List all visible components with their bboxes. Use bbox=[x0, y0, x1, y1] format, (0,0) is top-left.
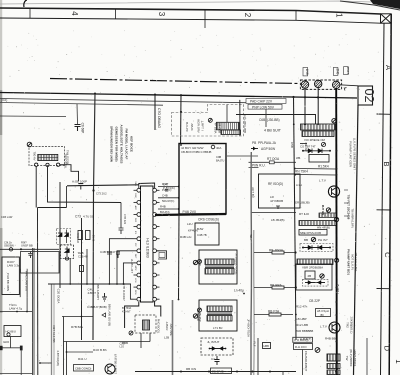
svg-text:1: 1 bbox=[394, 359, 400, 364]
U6 mark bbox=[320, 274, 324, 278]
svg-text:2N17: 2N17 bbox=[346, 67, 350, 75]
svg-text:LRFT I: LRFT I bbox=[201, 121, 205, 130]
svg-text:R1 5K4: R1 5K4 bbox=[318, 165, 329, 169]
wire y341 bbox=[64, 341, 151, 343]
svg-text:R-H JOO: R-H JOO bbox=[295, 345, 307, 349]
wire y316 bbox=[62, 316, 93, 318]
support vertical x87 bbox=[86, 249, 88, 284]
transformer T4 box bbox=[199, 250, 237, 284]
svg-text:BJU(N): BJU(N) bbox=[160, 210, 170, 214]
svg-text:47 HNT: 47 HNT bbox=[122, 311, 131, 314]
support vertical x70 bbox=[69, 259, 71, 285]
junction x296 rows bbox=[294, 168, 296, 170]
jack label 2N0 bbox=[333, 68, 338, 76]
dash-dot bus (off-page) bbox=[50, 79, 299, 84]
svg-text:L.T.V: L.T.V bbox=[320, 325, 327, 329]
svg-text:VOI 2PIECE OM: VOI 2PIECE OM bbox=[304, 138, 325, 142]
svg-text:KGR SRV: KGR SRV bbox=[197, 119, 201, 132]
svg-text:FM MODE; I.I AJC AF: FM MODE; I.I AJC AF bbox=[125, 129, 129, 160]
svg-text:TN4 OS?BL: TN4 OS?BL bbox=[64, 153, 68, 169]
vertical x258 bbox=[257, 338, 259, 375]
svg-text:C4B 7B: C4B 7B bbox=[197, 233, 207, 237]
svg-text:LN8: LN8 bbox=[305, 69, 309, 75]
U1 pin R3 bbox=[153, 213, 157, 217]
svg-text:ABJ4: ABJ4 bbox=[190, 123, 194, 131]
diode D4 dashed box bbox=[61, 245, 74, 259]
label PNP LOW 50V bbox=[248, 104, 282, 109]
border right inner line bbox=[381, 23, 385, 375]
svg-text:LJB: LJB bbox=[164, 336, 169, 340]
svg-text:(J30-BB): (J30-BB) bbox=[267, 118, 280, 122]
resistor R2C bbox=[80, 266, 84, 272]
vertical x21 bottom bbox=[20, 350, 22, 375]
mark near T1 bbox=[27, 142, 32, 147]
resistor RB JOOA body bbox=[272, 251, 284, 254]
svg-text:NBE 0PSS-0IOB: NBE 0PSS-0IOB bbox=[300, 231, 321, 235]
vertical from PNP box bbox=[265, 109, 267, 127]
svg-text:R4B L2x: R4B L2x bbox=[180, 235, 192, 239]
svg-text:C2B 4U: C2B 4U bbox=[78, 255, 88, 259]
wire from T1-2 bbox=[48, 167, 122, 203]
bus junction bbox=[154, 94, 156, 96]
U1 pin L8 bbox=[137, 273, 141, 277]
wire bbox=[296, 174, 336, 177]
T5 terminal mark bbox=[198, 308, 202, 312]
svg-text:HC-IB/U: HC-IB/U bbox=[6, 330, 16, 334]
zone tick 4|3 bbox=[115, 9, 117, 19]
transformer T1 winding bbox=[38, 154, 58, 160]
row divider A|B bbox=[377, 113, 392, 115]
svg-text:1: 1 bbox=[335, 13, 344, 18]
small box right of U1 bbox=[159, 253, 165, 258]
svg-text:TB/ MBR (LBP): TB/ MBR (LBP) bbox=[351, 208, 355, 227]
junction bbox=[178, 197, 180, 199]
transformer T1 dashed enclosure bbox=[29, 147, 65, 166]
junction bbox=[92, 283, 94, 285]
svg-text:LAW 4.7g: LAW 4.7g bbox=[9, 307, 22, 311]
U1 top arc wire bbox=[139, 183, 155, 188]
svg-text:LCH: LCH bbox=[134, 278, 136, 283]
mark circle row CO bbox=[321, 142, 325, 146]
svg-text:PPLPAIA-JA: PPLPAIA-JA bbox=[258, 141, 277, 145]
svg-text:JP-IBO-TBJA: JP-IBO-TBJA bbox=[247, 319, 251, 337]
connector pin strip CN3 bbox=[297, 259, 333, 265]
svg-text:L2U: L2U bbox=[187, 222, 193, 226]
U1 pin L4 bbox=[137, 225, 141, 229]
svg-text:02: 02 bbox=[362, 89, 376, 103]
svg-text:LJO: LJO bbox=[120, 346, 125, 349]
long vertical x294 bbox=[294, 97, 297, 340]
wire y310 bbox=[0, 311, 32, 313]
tie line J row bbox=[340, 85, 358, 86]
svg-text:RF ISO(D): RF ISO(D) bbox=[268, 182, 283, 186]
row divider B|C bbox=[377, 209, 392, 211]
diode D5 bbox=[58, 230, 62, 244]
mark bbox=[334, 217, 338, 221]
svg-text:TB/ FET 2SC2458: TB/ FET 2SC2458 bbox=[347, 195, 351, 220]
svg-text:BB: BB bbox=[304, 238, 308, 242]
wire below U3 bbox=[251, 212, 296, 214]
svg-text:MIX: MIX bbox=[134, 218, 136, 222]
junction heavy bus bbox=[335, 220, 337, 222]
junction heavy bus bbox=[335, 301, 337, 303]
continuation vertical below box bbox=[178, 214, 181, 300]
mark circle 2B25C bbox=[193, 314, 197, 318]
transformer T5 box bbox=[199, 300, 237, 331]
junction heavy bus bbox=[335, 168, 337, 170]
svg-text:C5B: C5B bbox=[290, 142, 294, 148]
U1 pin L10 bbox=[137, 297, 141, 301]
capacitor C6 bbox=[75, 125, 81, 132]
wire C6 branch bbox=[76, 104, 79, 124]
junction bbox=[317, 123, 319, 125]
svg-text:LB HBP: LB HBP bbox=[296, 317, 307, 321]
svg-text:RCH: RCH bbox=[134, 290, 136, 295]
svg-text:R4O B.Bh: R4O B.Bh bbox=[93, 348, 107, 352]
junction heavy bus bbox=[335, 150, 337, 152]
svg-text:L.T.V: L.T.V bbox=[319, 179, 326, 183]
diode D4 bbox=[65, 247, 69, 257]
diode pair dashed box upper bbox=[57, 229, 71, 245]
verticals x63-66 bbox=[64, 317, 67, 375]
svg-text:DN4B: DN4B bbox=[92, 235, 95, 242]
U5 pin stub up bbox=[226, 105, 228, 123]
zone tick 3|2 bbox=[204, 10, 206, 28]
box U6 bbox=[296, 264, 332, 290]
zone tick 2|1 bbox=[295, 11, 297, 21]
svg-text:ACT BV: ACT BV bbox=[251, 187, 255, 198]
svg-text:C20 OO2A: C20 OO2A bbox=[57, 289, 61, 304]
T1 terminal 1 bbox=[35, 163, 38, 166]
mark circle JBP bbox=[193, 260, 197, 264]
svg-text:C6 68P: C6 68P bbox=[81, 123, 85, 134]
svg-text:C4B BJY(BOB): C4B BJY(BOB) bbox=[87, 305, 107, 309]
svg-text:A.GB 100P: A.GB 100P bbox=[72, 179, 87, 183]
svg-text:PB: PB bbox=[252, 141, 256, 145]
junction bbox=[20, 248, 22, 250]
svg-text:NOT (L,K,P): NOT (L,K,P) bbox=[351, 254, 355, 269]
diode D2 row bbox=[302, 247, 304, 249]
U1 pin R8 bbox=[153, 273, 157, 277]
junction bbox=[178, 299, 180, 301]
IC U2 pin row 2 bbox=[302, 131, 334, 137]
svg-text:C4B: C4B bbox=[162, 194, 168, 198]
svg-text:(L,K,P) PB SERIES OMIT: (L,K,P) PB SERIES OMIT bbox=[353, 138, 357, 170]
svg-text:2: 2 bbox=[243, 13, 252, 18]
svg-text:TR2: TR2 bbox=[346, 322, 350, 328]
T1 terminal 3 bbox=[56, 163, 59, 166]
bottom stub wire B bbox=[40, 362, 52, 364]
junction bbox=[123, 283, 125, 285]
pen hook mark top left bbox=[24, 0, 27, 7]
U1 pin L5 bbox=[137, 237, 141, 241]
svg-text:R7B BJa: R7B BJa bbox=[71, 325, 83, 329]
junction bbox=[243, 293, 245, 295]
connector dashed box bbox=[300, 80, 341, 89]
svg-text:RT IHO: RT IHO bbox=[299, 212, 310, 216]
svg-text:C7O OBAAG: C7O OBAAG bbox=[157, 108, 161, 128]
svg-text:4J5O7: 4J5O7 bbox=[88, 291, 97, 295]
svg-text:CB-BOX POBN LYBBJB: CB-BOX POBN LYBBJB bbox=[181, 150, 212, 154]
T5 primary winding bbox=[207, 306, 232, 312]
svg-text:C7B 223: C7B 223 bbox=[123, 214, 127, 225]
junction bbox=[294, 251, 296, 253]
svg-text:D: D bbox=[383, 346, 392, 352]
long vertical x37.5 bbox=[37, 208, 39, 375]
svg-text:AFC: AFC bbox=[134, 206, 137, 211]
svg-text:PJL/BARJOBNT: PJL/BARJOBNT bbox=[304, 351, 308, 372]
junction bbox=[178, 208, 180, 210]
svg-text:RB ICN: RB ICN bbox=[186, 367, 196, 371]
T6 pin row 2 bbox=[327, 370, 340, 375]
T4 secondary winding bbox=[205, 269, 234, 275]
third bus bbox=[0, 103, 163, 106]
ground sym bbox=[102, 293, 107, 301]
svg-text:CB 22P: CB 22P bbox=[309, 299, 320, 303]
boxed RB BPJB bbox=[211, 368, 232, 374]
stub below HC box bbox=[10, 337, 12, 348]
junction heavy bus bbox=[335, 287, 337, 289]
svg-text:P4B 2V0: P4B 2V0 bbox=[183, 210, 196, 214]
svg-text:B: B bbox=[382, 161, 391, 166]
U1 pin L6 bbox=[137, 249, 141, 253]
box below wire bbox=[21, 252, 60, 274]
svg-text:(BLP)-BBBBF: (BLP)-BBBBF bbox=[349, 349, 353, 367]
U1 pin L9 bbox=[137, 285, 141, 289]
svg-text:4.7U 50: 4.7U 50 bbox=[83, 215, 94, 219]
U6 diode dashed box bbox=[303, 279, 329, 286]
bus junction bbox=[304, 96, 306, 98]
IC U2 pin row 1 bbox=[301, 124, 336, 130]
T3 winding bbox=[143, 320, 150, 330]
K1 mark bbox=[211, 145, 215, 149]
junction heavy bus bbox=[335, 371, 337, 373]
svg-text:P.RC LAW B7b: P.RC LAW B7b bbox=[25, 271, 29, 292]
capacitor C7 bbox=[78, 184, 83, 190]
svg-text:OSC: OSC bbox=[134, 193, 136, 198]
svg-text:SPANNUNGEN BEI UKW: SPANNUNGEN BEI UKW bbox=[110, 126, 114, 162]
output transformer T3 dashed box bbox=[135, 315, 156, 333]
cap on x121 bbox=[119, 228, 124, 234]
svg-text:(B): (B) bbox=[320, 313, 324, 317]
T4 primary winding bbox=[205, 259, 234, 265]
svg-text:C73 2U2: C73 2U2 bbox=[96, 192, 107, 196]
svg-text:2B: 2B bbox=[308, 274, 312, 278]
wire y347 with block terminals bbox=[0, 347, 21, 349]
junction bbox=[92, 189, 94, 191]
resistor RB BBA body bbox=[272, 286, 284, 289]
T1 terminal 2 bbox=[46, 163, 49, 166]
resistor RN4 vertical bbox=[78, 231, 83, 240]
long vertical x181 bbox=[180, 95, 183, 150]
svg-text:LPJTBB UJBBT: LPJTBB UJBBT bbox=[114, 354, 118, 374]
svg-text:4: 4 bbox=[70, 11, 79, 16]
box NBE bbox=[299, 230, 327, 236]
relay box K1 bbox=[179, 144, 226, 215]
extra dots x296 bbox=[295, 314, 297, 316]
wire from T1-1 bbox=[35, 166, 37, 207]
svg-text:IHOI: IHOI bbox=[3, 340, 9, 344]
U5 mark circle bbox=[208, 118, 212, 122]
U1 pin R1 bbox=[153, 188, 157, 192]
second bus bbox=[0, 99, 246, 103]
svg-text:LB-OB8: LB-OB8 bbox=[218, 123, 222, 134]
wire IC to box bbox=[158, 187, 179, 210]
svg-text:PB 1234 (LBP): PB 1234 (LBP) bbox=[354, 253, 358, 272]
junction bbox=[69, 283, 71, 285]
junction heavy bus bbox=[335, 314, 337, 316]
terminal circle HC box bbox=[7, 333, 10, 336]
box HBB bbox=[263, 343, 271, 349]
mark circle BT bbox=[129, 331, 133, 335]
diode D6 bbox=[65, 230, 69, 244]
common wire y284 bbox=[48, 283, 131, 285]
U6 inner box bbox=[305, 271, 315, 279]
U1 pin L1 bbox=[137, 188, 141, 192]
capacitor C4T bbox=[165, 190, 168, 192]
svg-text:2N0: 2N0 bbox=[336, 68, 340, 74]
bus to IC top bbox=[67, 185, 139, 186]
border right outer line bbox=[389, 14, 391, 375]
svg-text:HBB: HBB bbox=[264, 344, 270, 348]
svg-text:PH IS?: PH IS? bbox=[318, 238, 328, 242]
zone tick 4/edge bbox=[29, 8, 31, 18]
svg-text:PJR(K): PJR(K) bbox=[162, 188, 171, 192]
diode pair in box bbox=[209, 348, 226, 350]
svg-text:BBB: BBB bbox=[122, 341, 128, 345]
tall box left bbox=[2, 257, 19, 295]
boxed CBB OO4 bbox=[74, 365, 94, 372]
svg-text:AUSGELEGTE HOLTAGES: AUSGELEGTE HOLTAGES bbox=[120, 125, 124, 164]
svg-text:UNSF BB: UNSF BB bbox=[21, 244, 33, 248]
IC U1 body bbox=[141, 186, 154, 302]
T4 core bbox=[205, 266, 234, 268]
wire y168 bbox=[227, 156, 296, 168]
svg-text:FLF: FLF bbox=[253, 342, 257, 347]
mark at CN3 right bbox=[335, 258, 339, 262]
jack J2 bbox=[315, 80, 322, 87]
border top line inner bbox=[0, 18, 381, 23]
diode D9 row bbox=[251, 148, 258, 150]
svg-text:AGP 50W: AGP 50W bbox=[261, 147, 275, 151]
U1 pin R5 bbox=[153, 237, 157, 241]
svg-text:BJR BBBBBB: BJR BBBBBB bbox=[296, 329, 313, 333]
bus junction bbox=[94, 93, 96, 95]
svg-text:R4P: R4P bbox=[162, 182, 168, 186]
long vertical x60 bbox=[59, 182, 61, 288]
svg-text:LAW 3.3a: LAW 3.3a bbox=[7, 264, 20, 268]
jack label 2N17 bbox=[344, 67, 349, 75]
junction bbox=[16, 311, 18, 313]
svg-text:PAD CHIP 22V: PAD CHIP 22V bbox=[250, 100, 273, 104]
svg-text:JT.BOBJL-TBWL: JT.BOBJL-TBWL bbox=[235, 253, 239, 275]
svg-text:PIIN R.U.: PIIN R.U. bbox=[252, 164, 266, 168]
svg-text:HL3 ILD3B3: HL3 ILD3B3 bbox=[146, 238, 150, 258]
T4 terminal mark bbox=[198, 260, 202, 264]
module dashed box U5 bbox=[172, 105, 244, 137]
boxed R-H JOO bbox=[294, 344, 313, 350]
svg-text:IBB 4JBJBY: IBB 4JBJBY bbox=[96, 284, 100, 300]
svg-text:LB JBJ(B): LB JBJ(B) bbox=[271, 218, 285, 222]
svg-text:R4B BBL: R4B BBL bbox=[325, 337, 338, 341]
svg-text:R4B: R4B bbox=[160, 205, 166, 209]
stub dashes bbox=[344, 190, 348, 216]
svg-text:BBI LAW IJU (B): BBI LAW IJU (B) bbox=[108, 304, 112, 326]
svg-text:PA/AMP UNIT BD1: PA/AMP UNIT BD1 bbox=[347, 249, 351, 275]
svg-text:C9B: C9B bbox=[216, 155, 221, 159]
gray pair verticals bbox=[51, 284, 53, 375]
junction bbox=[66, 351, 68, 353]
wire vertical x95 bbox=[93, 94, 95, 340]
cap inside box bbox=[28, 252, 33, 259]
U1 pin R10 bbox=[153, 297, 157, 301]
svg-text:50U47(K): 50U47(K) bbox=[162, 199, 174, 203]
svg-text:OBOBN: OBOBN bbox=[4, 244, 14, 248]
gray heavy vertical x172 bbox=[172, 300, 174, 375]
junction bbox=[109, 283, 111, 285]
svg-text:R4B 4U8: R4B 4U8 bbox=[76, 233, 79, 243]
U1 pin R4 bbox=[153, 225, 157, 229]
vertical x27 lower bbox=[26, 297, 28, 311]
cap C4C bbox=[116, 252, 120, 258]
svg-text:A.3H: A.3H bbox=[296, 183, 302, 187]
jack J1 drop wire bbox=[304, 88, 306, 124]
junction heavy bus bbox=[335, 341, 337, 343]
svg-text:TW: TW bbox=[345, 356, 349, 361]
junction heavy bus bbox=[335, 174, 337, 176]
wire pin L5 left bbox=[109, 239, 133, 284]
svg-text:BAJ7U: BAJ7U bbox=[216, 159, 224, 163]
corner X box bbox=[381, 14, 392, 23]
svg-text:700 AV: 700 AV bbox=[33, 151, 37, 160]
svg-text:4 BB SUIT: 4 BB SUIT bbox=[264, 129, 282, 133]
U1 pin L3 bbox=[137, 213, 141, 217]
U1 bottom step right bbox=[155, 302, 161, 317]
U1 bottom step left bbox=[125, 302, 139, 328]
svg-text:A: A bbox=[384, 65, 393, 70]
U1 pin L7 bbox=[137, 261, 141, 265]
junction bbox=[304, 123, 306, 125]
T3 lead down B bbox=[149, 333, 151, 342]
junction bbox=[81, 316, 83, 318]
junction bbox=[86, 283, 88, 285]
junction bbox=[39, 362, 41, 364]
bus junction bbox=[292, 96, 294, 98]
svg-text:C4: C4 bbox=[211, 357, 215, 361]
mark circle near U2 bbox=[332, 119, 336, 123]
U1 right pin loop bbox=[157, 251, 167, 259]
terminal circle bbox=[9, 248, 12, 251]
bottom stub wire C bbox=[67, 351, 94, 353]
jack label CN8 bbox=[303, 68, 308, 76]
svg-text:R12 LBB: R12 LBB bbox=[296, 323, 308, 327]
U1 pin L2 bbox=[137, 201, 141, 205]
svg-text:HPRT-BB304: HPRT-BB304 bbox=[353, 350, 357, 367]
left stub bus bbox=[0, 115, 66, 118]
svg-text:R12 47h: R12 47h bbox=[296, 305, 308, 309]
label PAD CHIP 22V bbox=[246, 99, 286, 104]
junction heavy bus bbox=[335, 261, 337, 263]
svg-text:PNP LOW 50V: PNP LOW 50V bbox=[252, 105, 275, 109]
jack J2 drop wire bbox=[317, 88, 319, 125]
T5 core bbox=[207, 313, 232, 315]
tick near 02 wire bbox=[344, 88, 347, 91]
shielded line pair bbox=[250, 152, 252, 375]
U1 pin R7 bbox=[153, 261, 157, 265]
svg-text:CBB OO4(D): CBB OO4(D) bbox=[75, 367, 91, 371]
resistor RN5 vertical bbox=[86, 231, 91, 240]
junction bbox=[26, 311, 28, 313]
